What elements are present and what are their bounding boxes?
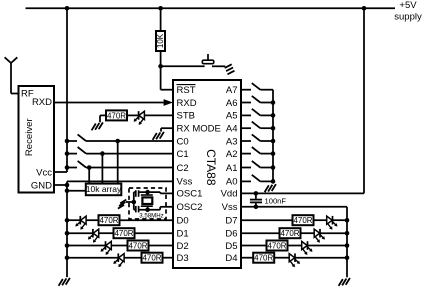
svg-text:100nF: 100nF bbox=[265, 196, 287, 205]
wire LED D7 to bus bbox=[333, 219, 348, 221]
svg-text:470R: 470R bbox=[280, 229, 299, 238]
switch SA4 (A4 to ground) bbox=[241, 127, 251, 129]
switch SA1 (A1 to ground) bbox=[241, 167, 251, 169]
wire LED D6 to bus bbox=[320, 232, 347, 234]
resistor 470R (D2) bbox=[128, 241, 149, 251]
wire bus to LED D1 bbox=[67, 232, 93, 234]
resistor 470R (D7) bbox=[293, 215, 314, 225]
node OSC2/crystal bbox=[145, 207, 150, 212]
svg-text:D7: D7 bbox=[225, 216, 237, 227]
svg-text:RST: RST bbox=[177, 85, 196, 96]
wire Vss(left) to ground bus bbox=[67, 180, 173, 182]
switch SC0 (C0 to +5V) bbox=[67, 140, 77, 142]
wire 470R to LED D6 bbox=[301, 232, 315, 234]
node: rail to right +5V branch bbox=[362, 6, 367, 11]
svg-text:470R: 470R bbox=[128, 241, 147, 250]
node C1 switch on +5V bus bbox=[65, 151, 70, 156]
wire +5V top rail bbox=[26, 7, 396, 9]
svg-text:RXD: RXD bbox=[32, 97, 52, 108]
svg-text:OSC2: OSC2 bbox=[177, 202, 203, 213]
receiver module box bbox=[19, 86, 55, 193]
LED D0 bbox=[81, 216, 87, 224]
wire GND receiver to ground bus bbox=[54, 184, 67, 186]
wire RST node to RST pin bbox=[160, 66, 162, 89]
node A0 on switch bus bbox=[271, 179, 276, 184]
svg-text:A0: A0 bbox=[226, 177, 238, 188]
resistor 470R (STB LED) bbox=[106, 110, 127, 120]
node OSC1/crystal bbox=[145, 190, 150, 195]
LED D7 bbox=[327, 216, 333, 224]
wire LED to 470R D0 bbox=[86, 219, 98, 221]
svg-text:D3: D3 bbox=[177, 253, 189, 264]
svg-text:A3: A3 bbox=[226, 136, 238, 147]
capacitor C1 (osc top) bbox=[135, 190, 137, 197]
svg-text:A5: A5 bbox=[226, 111, 238, 122]
wire bus to LED D0 bbox=[67, 219, 80, 221]
svg-text:3.58MHz: 3.58MHz bbox=[139, 213, 163, 220]
wire RX MODE to ground bbox=[161, 127, 173, 129]
wire OSC1 bbox=[160, 192, 173, 194]
node C2 switch on +5V bus bbox=[65, 165, 70, 170]
svg-text:D2: D2 bbox=[177, 241, 189, 252]
switch SA5 (A5 to ground) bbox=[241, 114, 251, 116]
node A5 on switch bus bbox=[271, 113, 276, 118]
resistor 470R (D3) bbox=[142, 253, 163, 263]
wire pin D5 to 470R bbox=[241, 245, 267, 247]
wire 470R to pin D1 bbox=[135, 232, 174, 234]
wire C1 row bbox=[86, 153, 173, 155]
node A6 on switch bus bbox=[271, 100, 276, 105]
wire osc ground tap bbox=[126, 201, 134, 203]
svg-text:C0: C0 bbox=[177, 136, 189, 147]
switch SA7 (A7 to ground) bbox=[241, 89, 251, 91]
svg-text:Vcc: Vcc bbox=[36, 167, 52, 178]
node A1 on switch bus bbox=[271, 165, 276, 170]
svg-text:Vdd: Vdd bbox=[221, 189, 238, 200]
svg-text:D6: D6 bbox=[225, 229, 237, 240]
LED D2 bbox=[106, 241, 112, 249]
ground (left bus) bbox=[66, 278, 70, 285]
svg-text:A4: A4 bbox=[226, 124, 238, 135]
wire pin D6 to 470R bbox=[241, 232, 280, 234]
svg-text:D1: D1 bbox=[177, 229, 189, 240]
node C0 switch on +5V bus bbox=[65, 139, 70, 144]
node RST bbox=[158, 64, 163, 69]
node A3 on switch bus bbox=[271, 139, 276, 144]
ground (right LED bus) bbox=[346, 278, 350, 285]
node D0 on ground bus bbox=[65, 218, 70, 223]
wire 470R to LED D4 bbox=[274, 257, 289, 259]
ground (switch bus) bbox=[272, 184, 276, 191]
svg-text:C1: C1 bbox=[177, 149, 189, 160]
LED D6 bbox=[314, 229, 320, 237]
dashed box (oscillator) bbox=[129, 188, 166, 219]
svg-text:470R: 470R bbox=[99, 216, 118, 225]
wire 470R to LED D7 bbox=[314, 219, 327, 221]
wire osc ground vertical bbox=[133, 192, 135, 210]
wire Vss(right) to LED bus bbox=[241, 206, 347, 208]
svg-text:10k array: 10k array bbox=[86, 184, 122, 194]
LED D4 bbox=[289, 254, 295, 262]
wire +5V right vertical bbox=[363, 8, 365, 193]
wire C1 to 10k array bbox=[101, 154, 103, 183]
switch SC2 (C2 to +5V) bbox=[67, 167, 77, 169]
wire C2 to 10k array bbox=[88, 168, 90, 184]
wire 470R to pin D3 bbox=[163, 257, 174, 259]
node: rail to left +5V branch bbox=[65, 6, 70, 11]
svg-text:10K: 10K bbox=[156, 33, 165, 48]
switch SA6 (A6 to ground) bbox=[241, 102, 251, 104]
crystal X1 3.58MHz bbox=[147, 192, 149, 195]
wire bus to LED D2 bbox=[67, 245, 106, 247]
svg-text:A2: A2 bbox=[226, 149, 238, 160]
wire LED to 470R D1 bbox=[99, 232, 114, 234]
IC U1 CTA88 bbox=[173, 80, 241, 268]
node D3 on ground bus bbox=[65, 255, 70, 260]
ground (reset button) bbox=[225, 64, 232, 68]
wire C0 to 10k array bbox=[117, 141, 119, 183]
svg-text:470R: 470R bbox=[142, 254, 161, 263]
LED D1 bbox=[93, 229, 99, 237]
node D1 on ground bus bbox=[65, 231, 70, 236]
node Vdd/C3 bbox=[254, 191, 259, 196]
wire LED to 470R D3 bbox=[124, 257, 141, 259]
svg-text:470R: 470R bbox=[254, 254, 273, 263]
svg-text:470R: 470R bbox=[267, 241, 286, 250]
svg-text:RXD: RXD bbox=[177, 98, 197, 109]
node D6 on LED bus bbox=[345, 231, 350, 236]
resistor network 10k array bbox=[86, 184, 122, 196]
wire bus to LED D3 bbox=[67, 257, 118, 259]
resistor R1 10K bbox=[160, 8, 162, 31]
svg-text:GND: GND bbox=[31, 180, 52, 191]
svg-text:C2: C2 bbox=[177, 163, 189, 174]
svg-text:A6: A6 bbox=[226, 98, 238, 109]
LED D5 bbox=[302, 241, 308, 249]
capacitor C2 (osc bottom) bbox=[135, 206, 137, 213]
wire 470R to pin D0 bbox=[120, 219, 174, 221]
switch SC1 (C1 to +5V) bbox=[67, 153, 77, 155]
wire right switch bus bbox=[272, 90, 274, 184]
resistor 470R (D6) bbox=[280, 228, 301, 238]
node GND bbox=[65, 183, 70, 188]
push-button S1 (reset) bbox=[207, 54, 209, 61]
node D4 on LED bus bbox=[345, 255, 350, 260]
node D5 on LED bus bbox=[345, 243, 350, 248]
resistor 470R (D1) bbox=[114, 228, 135, 238]
svg-text:supply: supply bbox=[394, 12, 422, 23]
ground (RX MODE) bbox=[160, 132, 164, 139]
node 10k array common bbox=[65, 189, 70, 194]
wire OSC2 bottom bbox=[139, 209, 161, 211]
wire LED to 470R D2 bbox=[111, 245, 127, 247]
node D7 on LED bus bbox=[345, 218, 350, 223]
wire RXD receiver to IC bbox=[54, 102, 165, 104]
node D2 on ground bus bbox=[65, 243, 70, 248]
wire 10k array common to ground bus bbox=[67, 190, 86, 192]
LED D3 bbox=[119, 254, 125, 262]
wire RST node to reset button bbox=[161, 65, 205, 67]
wire pin D7 to 470R bbox=[241, 219, 293, 221]
wire C0 row bbox=[86, 140, 173, 142]
LED (STB) bbox=[139, 111, 145, 119]
svg-text:A1: A1 bbox=[226, 163, 238, 174]
wire 470R to LED D5 bbox=[288, 245, 302, 247]
wire STB ground to resistor bbox=[99, 115, 101, 122]
node C0 pulldown tap bbox=[115, 139, 120, 144]
node C1 pulldown tap bbox=[100, 151, 105, 156]
svg-text:CTA88: CTA88 bbox=[204, 149, 218, 186]
node Vss/C3 bbox=[254, 205, 259, 210]
svg-text:+5V: +5V bbox=[399, 0, 417, 11]
arrow into RXD pin bbox=[164, 99, 173, 106]
svg-text:STB: STB bbox=[177, 111, 195, 122]
antenna bbox=[10, 63, 12, 94]
svg-text:OSC1: OSC1 bbox=[177, 189, 203, 200]
svg-text:A7: A7 bbox=[226, 85, 238, 96]
resistor 470R (D0) bbox=[99, 215, 120, 225]
wire LED D4 to bus bbox=[295, 257, 347, 259]
svg-text:RX MODE: RX MODE bbox=[177, 124, 221, 135]
switch SA0 (A0 to ground) bbox=[241, 180, 251, 182]
node osc ground tap bbox=[132, 200, 137, 205]
switch SA3 (A3 to ground) bbox=[241, 140, 251, 142]
svg-text:D4: D4 bbox=[225, 253, 237, 264]
svg-text:Vss: Vss bbox=[222, 202, 238, 213]
svg-text:470R: 470R bbox=[293, 216, 312, 225]
wire 470R to LED (STB) bbox=[127, 114, 139, 116]
node A2 on switch bus bbox=[271, 151, 276, 156]
resistor 470R (D5) bbox=[267, 241, 288, 251]
svg-text:Vss: Vss bbox=[177, 177, 193, 188]
switch SA2 (A2 to ground) bbox=[241, 153, 251, 155]
wire +5V left vertical to Vcc bbox=[66, 8, 68, 172]
resistor 470R (D4) bbox=[253, 253, 274, 263]
wire C2 row bbox=[86, 167, 173, 169]
wire Vdd to +5V bbox=[241, 192, 364, 194]
wire left ground bus bbox=[66, 181, 68, 277]
wire LED to STB pin bbox=[144, 114, 173, 116]
wire 470R to pin D2 bbox=[149, 245, 174, 247]
svg-text:470R: 470R bbox=[114, 229, 133, 238]
capacitor C3 100nF bbox=[255, 193, 257, 198]
wire pin D4 to 470R bbox=[241, 257, 253, 259]
svg-text:D0: D0 bbox=[177, 216, 189, 227]
svg-text:470R: 470R bbox=[107, 111, 126, 120]
ground (STB LED) bbox=[99, 122, 103, 129]
wire LED D5 to bus bbox=[308, 245, 348, 247]
node A4 on switch bus bbox=[271, 126, 276, 131]
svg-text:D5: D5 bbox=[225, 241, 237, 252]
svg-text:Receiver: Receiver bbox=[24, 117, 35, 156]
node C2 pulldown tap bbox=[87, 165, 92, 170]
wire button to ground bbox=[212, 65, 225, 67]
ground (oscillator) bbox=[120, 200, 126, 204]
node: rail to R1 10K bbox=[158, 6, 163, 11]
